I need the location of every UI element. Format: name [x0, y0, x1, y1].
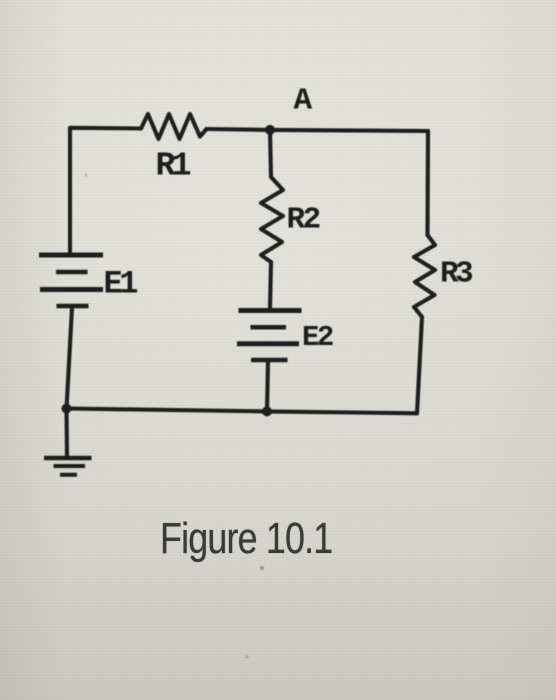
- wire: R2 to battery E2: [270, 262, 271, 308]
- wire right-bottom: R3 to bottom-right corner: [417, 317, 422, 413]
- wire right: corner down to R3: [425, 131, 430, 235]
- dust speck: [260, 566, 264, 570]
- resistor R1: [141, 114, 207, 139]
- ground bar 3: [60, 473, 77, 477]
- resistor R2: [261, 177, 283, 262]
- wire: battery E2 bottom stem: [267, 361, 268, 411]
- svg-text:R2: R2: [287, 202, 320, 237]
- node A junction dot: [265, 125, 275, 135]
- battery E1 plate short bottom: [57, 304, 89, 309]
- battery E2 plate long: [237, 341, 299, 346]
- svg-text:E1: E1: [104, 266, 138, 303]
- dust speck: [245, 655, 248, 658]
- svg-text:R1: R1: [156, 148, 191, 185]
- dust speck: [85, 174, 88, 177]
- ground bar 1: [44, 456, 92, 461]
- battery E2 plate short bottom: [251, 358, 288, 363]
- wire top: R1 to node A to top-right corner: [207, 129, 429, 131]
- junction dot bottom-left: [62, 404, 72, 414]
- svg-text:A: A: [294, 84, 313, 119]
- wire: E1 bottom stem to bottom wire: [67, 308, 73, 409]
- svg-text:E2: E2: [302, 321, 333, 354]
- resistor R3: [414, 235, 435, 317]
- wire top-left: E1 top to corner to R1: [70, 128, 141, 253]
- ground bar 2: [54, 464, 86, 468]
- battery E1 plate long: [40, 287, 103, 292]
- wire middle: node A down to R2: [270, 130, 271, 177]
- battery E1 plate short: [56, 270, 88, 275]
- wire: ground stem: [64, 409, 69, 457]
- caption Figure 10.1: [160, 514, 332, 564]
- wire bottom: [67, 409, 418, 414]
- battery E2 plate short: [251, 325, 287, 330]
- battery E1 plate long top: [39, 253, 103, 258]
- battery E2 plate long top: [239, 308, 302, 313]
- svg-text:R3: R3: [440, 257, 473, 292]
- junction dot bottom-middle: [262, 406, 272, 416]
